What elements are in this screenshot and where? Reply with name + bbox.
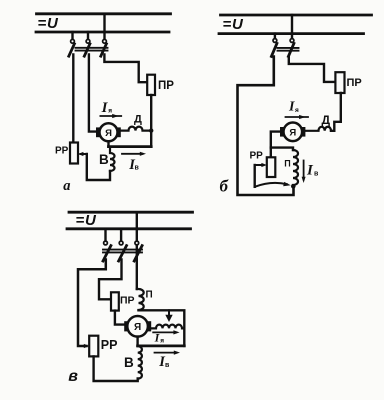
svg-text:В: В (124, 355, 134, 370)
svg-text:в: в (68, 368, 78, 385)
svg-text:я: я (295, 107, 299, 114)
svg-text:в: в (314, 171, 319, 178)
svg-text:ПР: ПР (347, 77, 362, 89)
svg-text:а: а (63, 178, 70, 194)
svg-text:Я: Я (289, 127, 296, 138)
svg-text:РР: РР (55, 146, 69, 157)
svg-text:П: П (146, 290, 153, 301)
svg-text:ПР: ПР (158, 80, 174, 92)
svg-text:я: я (160, 338, 164, 345)
svg-text:Д: Д (134, 114, 142, 126)
svg-text:=U: =U (223, 16, 245, 33)
svg-text:Д: Д (322, 113, 331, 127)
svg-text:в: в (165, 362, 170, 369)
svg-text:Я: Я (105, 128, 112, 139)
svg-text:в: в (135, 165, 140, 172)
svg-text:РР: РР (101, 338, 118, 352)
svg-text:Я: Я (134, 322, 141, 333)
svg-text:П: П (284, 159, 290, 169)
svg-text:I: I (288, 99, 295, 114)
svg-text:ПР: ПР (120, 295, 135, 307)
svg-text:=U: =U (76, 212, 98, 229)
svg-text:I: I (306, 162, 314, 178)
svg-text:РР: РР (250, 151, 264, 162)
svg-text:В: В (99, 152, 109, 167)
svg-text:я: я (108, 108, 112, 115)
svg-text:=U: =U (38, 15, 60, 32)
